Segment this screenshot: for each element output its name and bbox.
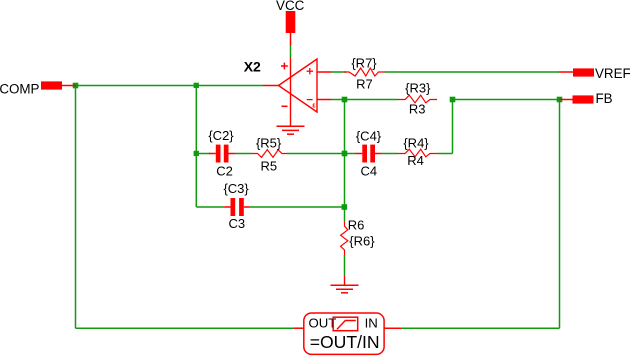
svg-text:FB: FB: [596, 91, 613, 106]
wire C3 row left: [196, 206, 224, 208]
svg-text:C2: C2: [216, 164, 233, 179]
wire middle vertical column x194: [195, 86, 197, 208]
resistor R6: [341, 218, 376, 255]
port COMP: [0, 81, 76, 96]
wire junction to C4: [345, 153, 356, 155]
label X2: [244, 59, 261, 75]
svg-text:COMP: COMP: [0, 81, 40, 96]
resistor R4: [398, 135, 437, 168]
wire vertical R3 junction to R4: [452, 100, 454, 154]
capacitor C3: [223, 181, 249, 231]
wire C3 row right: [250, 206, 345, 208]
svg-text:VCC: VCC: [276, 0, 305, 13]
wire R5 to junction: [287, 153, 345, 155]
wire right vertical FB column: [559, 100, 561, 329]
wire op-amp plus input to R7: [331, 71, 346, 73]
svg-text:{R4}: {R4}: [403, 135, 429, 150]
probe block OUT/IN transfer function: [294, 313, 401, 354]
wire R4 to corner: [437, 153, 453, 155]
wire VCC to op-amp: [290, 46, 292, 58]
junction node C2 row: [194, 151, 199, 156]
wire op-amp minus input to junction: [331, 99, 345, 101]
resistor R5: [252, 136, 287, 174]
junction node output column: [194, 83, 199, 88]
svg-text:C4: C4: [360, 163, 377, 178]
port VREF: [559, 66, 630, 81]
ground R6: [331, 276, 359, 293]
svg-text:R5: R5: [260, 158, 277, 173]
svg-text:R3: R3: [409, 102, 426, 117]
wire vertical x344 from minus row to C3 row: [344, 100, 346, 208]
resistor R3: [398, 80, 437, 116]
op-amp X2: [263, 58, 331, 127]
svg-text:X2: X2: [244, 59, 261, 75]
capacitor C2: [208, 128, 235, 179]
wire left vertical COMP column: [75, 86, 77, 329]
port VCC: [276, 0, 305, 46]
svg-text:{R3}: {R3}: [405, 80, 431, 95]
wire C2 row from column: [196, 153, 210, 155]
capacitor C4: [356, 128, 382, 178]
svg-text:C3: C3: [228, 216, 245, 231]
svg-text:{R5}: {R5}: [256, 136, 282, 151]
wire junction to R3: [345, 99, 399, 101]
svg-text:R4: R4: [407, 153, 424, 168]
svg-text:IN: IN: [365, 315, 378, 330]
svg-text:{R6}: {R6}: [349, 234, 375, 249]
ground op-amp: [277, 126, 305, 134]
wire bottom left horizontal to OUT box: [76, 327, 295, 329]
svg-text:{C3}: {C3}: [223, 181, 249, 196]
svg-text:{C4}: {C4}: [356, 128, 382, 143]
junction node R3 right: [450, 97, 456, 103]
wire C4 to R4: [381, 153, 398, 155]
svg-text:VREF: VREF: [595, 66, 630, 81]
svg-text:ε: ε: [312, 101, 316, 110]
wire bottom right horizontal from IN box: [401, 327, 559, 329]
junction node COMP: [73, 83, 79, 89]
junction node FB: [557, 97, 563, 103]
svg-text:OUT: OUT: [309, 315, 337, 330]
junction node C3 row R6: [342, 204, 348, 210]
wire R6 to ground: [344, 255, 346, 276]
svg-text:=OUT/IN: =OUT/IN: [310, 332, 380, 352]
svg-text:R7: R7: [356, 77, 373, 92]
wire junction to R6: [344, 207, 346, 221]
junction node minus input: [342, 97, 348, 103]
wire C2 to R5: [236, 153, 252, 155]
wire COMP horizontal to op-amp output: [76, 85, 264, 87]
resistor R7: [344, 56, 385, 92]
port FB: [560, 91, 613, 106]
svg-text:{C2}: {C2}: [208, 128, 234, 143]
wire R7 to VREF: [385, 71, 560, 73]
svg-text:R6: R6: [348, 218, 365, 233]
junction node C4 row: [342, 151, 348, 157]
svg-text:{R7}: {R7}: [351, 56, 377, 71]
wire FB row from R3 junction to FB junction: [453, 99, 560, 101]
